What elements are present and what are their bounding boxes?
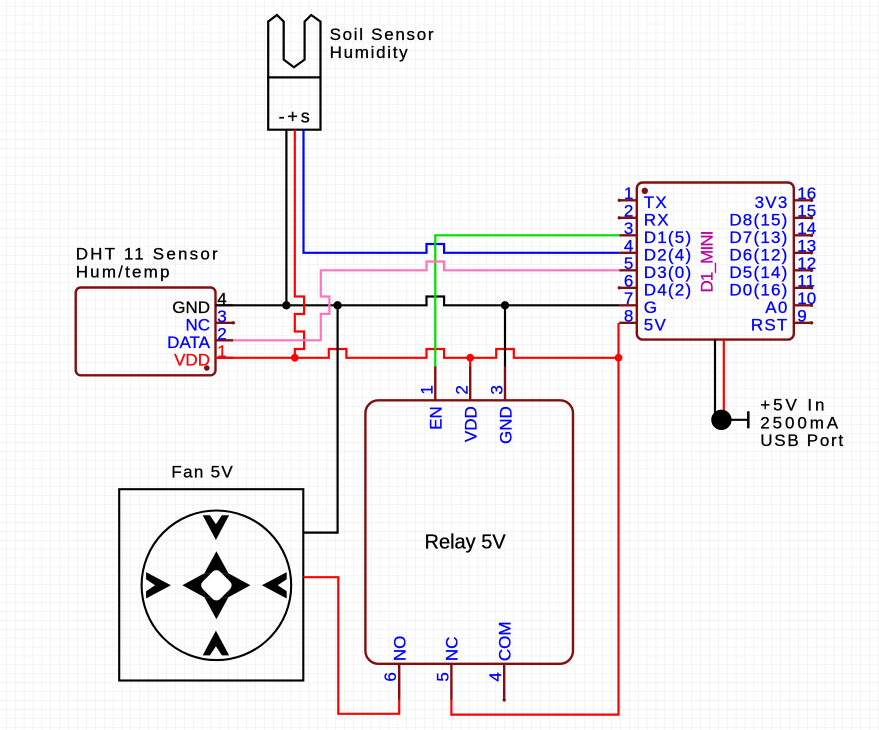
relay pin 2 number [453,385,472,394]
svg-text:EN: EN [427,406,446,430]
DHT11 pin name DATA [167,333,210,352]
svg-text:4: 4 [486,672,505,681]
wire soil sensor s to D1 mini D2 (blue) [304,130,620,253]
label DHT 11 Sensor Hum/temp [76,245,220,282]
D1 mini pin 12 number [797,254,816,273]
DHT11 sensor U2 body [76,288,216,376]
D1 mini pin 2 stub [618,216,637,219]
wire GND rail (black) [216,297,620,306]
D1 mini pin 12 stub (unconnected) [794,269,813,272]
D1 mini pin 10 stub (unconnected) [794,304,813,307]
relay pin 6 stub [398,664,400,700]
DHT11 pin name VDD [174,351,210,370]
D1 mini pin name D2(4) [644,245,693,264]
svg-text:NC: NC [443,637,462,662]
svg-text:4: 4 [624,237,633,256]
svg-text:GND: GND [496,406,515,444]
relay pin name EN [427,406,446,430]
svg-text:Hum/temp: Hum/temp [76,263,172,282]
DHT11 pin 3 number [217,307,226,326]
junction GND rail / fan black wire [333,301,341,309]
D1 mini pin name D0(16) [729,280,788,299]
svg-text:1: 1 [624,184,633,203]
D1 mini pin 8 stub [619,322,637,324]
DHT11 pin 2 DATA stub [216,339,234,341]
svg-text:+5V In: +5V In [760,396,827,415]
D1 mini pin 3 number [624,219,633,238]
wire relay GND to GND rail (black) [504,305,506,366]
svg-text:11: 11 [797,272,815,291]
D1 mini pin name D7(13) [729,228,788,247]
D1 mini pin 16 number [797,184,816,203]
D1 mini pin name D6(12) [729,245,788,264]
svg-text:D8(15): D8(15) [729,210,788,229]
svg-text:TX: TX [644,193,668,212]
D1 mini pin 13 number [797,237,816,256]
DHT11 pin 3 NC stub (unconnected) [216,321,236,324]
svg-text:USB Port: USB Port [760,431,844,450]
svg-text:RX: RX [644,210,670,229]
fan M1 (5V fan symbol) [119,489,303,680]
relay pin 1 stub [434,367,436,401]
svg-text:VDD: VDD [174,351,210,370]
DHT11 pin 1 number [217,342,226,361]
svg-text:DATA: DATA [167,333,210,352]
D1 mini pin name 5V [644,315,667,334]
junction 5V rail / relay VDD [466,354,474,362]
DHT11 pin 1 VDD stub [216,357,234,359]
DHT11 pin 2 number [217,324,226,343]
svg-text:D1(5): D1(5) [644,228,693,247]
D1 mini pin 2 number [624,202,633,221]
svg-text:A0: A0 [765,298,788,317]
svg-text:6: 6 [624,272,633,291]
DHT11 pin 4 GND stub [216,304,234,306]
svg-text:DHT 11 Sensor: DHT 11 Sensor [76,245,220,264]
svg-text:2: 2 [453,385,472,394]
wire 5V rail (red) [216,349,619,358]
svg-text:2: 2 [624,202,633,221]
svg-text:7: 7 [624,289,633,308]
svg-text:Humidity: Humidity [330,43,410,62]
D1 mini pin 7 stub [619,304,637,306]
svg-text:NO: NO [391,636,410,662]
D1 mini pin 5 stub [619,269,637,271]
svg-text:G: G [644,298,658,317]
relay pin name NO [391,636,410,662]
D1 mini pin name D1(5) [644,228,693,247]
svg-text:RST: RST [751,315,789,334]
svg-text:10: 10 [797,289,816,308]
wire D1 mini D1(5) to relay EN (green) [435,235,619,366]
D1 mini pin 10 number [797,289,816,308]
D1 mini pin name RX [644,210,670,229]
svg-text:2: 2 [217,324,226,343]
svg-text:D4(2): D4(2) [644,280,693,299]
svg-text:D1_MINI: D1_MINI [697,231,716,292]
wire fan red to relay NO (red) [303,577,399,714]
D1 mini pin 5 number [624,254,633,273]
svg-text:D6(12): D6(12) [729,245,788,264]
junction 5V rail / soil plus [291,354,299,362]
relay pin 6 number [381,672,400,681]
relay pin name NC [443,637,462,662]
svg-text:3V3: 3V3 [755,193,789,212]
wire soil sensor minus to GND rail (black) [285,130,287,306]
label Relay 5V [425,531,507,553]
label +5V In 2500mA USB Port [760,396,844,450]
D1 mini pin 15 number [797,202,816,221]
D1 mini pin name D8(15) [729,210,788,229]
D1 mini pin 16 stub (unconnected) [794,199,813,202]
svg-text:3: 3 [624,219,633,238]
svg-text:COM: COM [496,621,515,661]
svg-text:D3(0): D3(0) [644,263,693,282]
svg-text:14: 14 [797,219,816,238]
svg-text:3: 3 [217,307,226,326]
soil moisture sensor U3 (probe symbol with pads - + s) [268,15,320,130]
D1 mini pin 14 stub (unconnected) [794,234,813,237]
svg-text:-+s: -+s [279,107,313,127]
svg-text:Soil Sensor: Soil Sensor [330,25,436,44]
svg-text:3: 3 [487,385,506,394]
wire +5V D1mini to USB port (red) [723,340,725,412]
svg-text:GND: GND [172,298,210,317]
wire GND D1mini to USB port (black) [714,340,716,413]
svg-text:D2(4): D2(4) [644,245,693,264]
WeMos D1 mini U4 body [637,183,794,340]
D1 mini pin 7 number [624,289,633,308]
D1 mini pin name G [644,298,658,317]
svg-text:9: 9 [797,307,806,326]
D1 mini pin 9 number [797,307,806,326]
svg-text:D0(16): D0(16) [729,280,788,299]
relay pin 4 number [486,672,505,681]
wire DHT DATA to D1 mini D3 (pink) [233,262,619,341]
D1 mini pin 4 stub [619,252,637,254]
svg-text:Relay 5V: Relay 5V [425,531,507,553]
wire D1 mini 5V down to rail (red) [617,323,619,358]
label Fan 5V [171,462,234,481]
wire fan black to GND rail [303,305,337,532]
D1 mini pin 9 stub (unconnected) [794,321,813,324]
label Soil Sensor Humidity [330,25,436,62]
svg-text:1: 1 [418,385,437,394]
DHT11 pin name GND [172,298,210,317]
DHT11 pin 4 number [217,289,226,308]
D1 mini pin 8 number [624,307,633,326]
label D1_MINI [697,231,716,292]
wire soil sensor plus to 5V rail (red) [295,130,304,358]
D1 mini pin name RST [751,315,789,334]
svg-text:15: 15 [797,202,816,221]
svg-text:Fan 5V: Fan 5V [171,462,234,481]
relay pin 2 stub [469,367,471,401]
svg-text:VDD: VDD [462,406,481,442]
D1 mini pin name TX [644,193,668,212]
D1 mini pin name D5(14) [729,263,788,282]
USB port connector symbol [711,410,748,430]
D1 mini pin 6 stub [618,286,637,289]
svg-text:D5(14): D5(14) [729,263,788,282]
junction GND rail / relay GND wire [501,301,509,309]
svg-text:5V: 5V [644,315,667,334]
wire 5V rail to relay VDD (red) [469,358,471,367]
svg-text:16: 16 [797,184,816,203]
D1 mini pin 4 number [624,237,633,256]
D1 mini pin name A0 [765,298,788,317]
D1 mini pin 6 number [624,272,633,291]
svg-text:5: 5 [624,254,633,273]
junction 5V rail / D1 mini 5V wire [615,354,623,362]
relay pin 4 stub [503,664,506,702]
relay pin name VDD [462,406,481,442]
junction GND rail / soil minus [282,301,290,309]
svg-text:D7(13): D7(13) [729,228,788,247]
DHT11 pin name NC [185,316,210,335]
relay pin 5 number [433,672,452,681]
svg-text:5: 5 [433,672,452,681]
relay pin 5 stub [450,664,452,700]
wire relay NC to 5V riser (red) [451,358,618,715]
D1 mini pin 1 stub [618,199,637,202]
D1 mini pin 13 stub (unconnected) [794,251,813,254]
D1 mini pin name 3V3 [755,193,789,212]
D1 mini pin 1 number [624,184,633,203]
D1 mini pin name D3(0) [644,263,693,282]
D1 mini pin 11 number [797,272,815,291]
svg-text:6: 6 [381,672,400,681]
D1 mini pin 3 stub [619,234,637,236]
svg-text:2500mA: 2500mA [760,413,841,432]
D1 mini pin name D4(2) [644,280,693,299]
relay pin name COM [496,621,515,661]
svg-text:13: 13 [797,237,816,256]
relay U1 body [365,400,573,664]
relay pin 3 number [487,385,506,394]
D1 mini pin 14 number [797,219,816,238]
svg-text:12: 12 [797,254,816,273]
relay pin 3 stub [504,367,506,401]
svg-text:8: 8 [624,307,633,326]
relay pin name GND [496,406,515,444]
svg-text:NC: NC [185,316,210,335]
D1 mini pin 15 stub (unconnected) [794,216,813,219]
relay pin 1 number [418,385,437,394]
D1 mini pin 11 stub (unconnected) [794,286,813,289]
